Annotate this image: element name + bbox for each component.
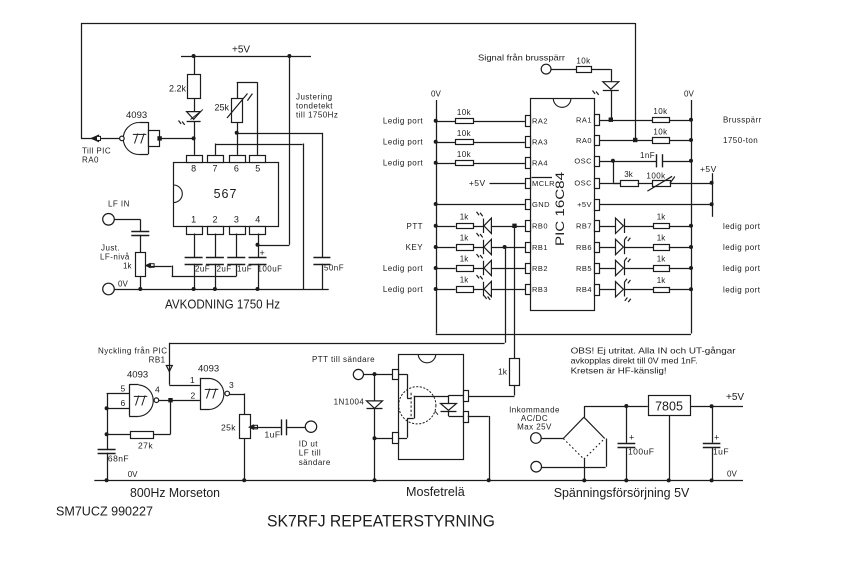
svg-text:10k: 10k xyxy=(457,150,472,159)
svg-text:Justering: Justering xyxy=(296,93,333,102)
svg-text:RA4: RA4 xyxy=(532,159,548,168)
svg-text:5: 5 xyxy=(121,384,126,394)
svg-text:ledig port: ledig port xyxy=(723,243,761,252)
svg-text:1uF: 1uF xyxy=(265,430,281,440)
svg-text:tondetekt: tondetekt xyxy=(296,102,333,111)
svg-text:50nF: 50nF xyxy=(324,264,344,273)
svg-text:OSC: OSC xyxy=(574,157,592,166)
svg-text:till 1750Hz: till 1750Hz xyxy=(296,111,338,120)
svg-text:1uF: 1uF xyxy=(713,447,729,457)
svg-text:2.2k: 2.2k xyxy=(169,84,187,94)
svg-text:+5V: +5V xyxy=(469,178,486,188)
svg-text:AVKODNING 1750 Hz: AVKODNING 1750 Hz xyxy=(165,297,280,312)
svg-text:RB1: RB1 xyxy=(532,243,548,252)
svg-text:Spänningsförsörjning 5V: Spänningsförsörjning 5V xyxy=(554,486,690,500)
svg-text:RB3: RB3 xyxy=(532,285,548,294)
svg-text:ledig port: ledig port xyxy=(723,222,761,231)
svg-text:2: 2 xyxy=(191,391,196,401)
svg-text:6: 6 xyxy=(121,398,126,408)
svg-text:25k: 25k xyxy=(214,103,229,113)
svg-text:100uF: 100uF xyxy=(258,265,283,274)
svg-text:10k: 10k xyxy=(457,129,472,138)
svg-text:1: 1 xyxy=(191,214,196,224)
svg-text:3k: 3k xyxy=(624,170,633,179)
svg-text:2uF: 2uF xyxy=(195,265,210,274)
svg-text:+5V: +5V xyxy=(577,200,592,209)
svg-text:Signal från brusspärr: Signal från brusspärr xyxy=(478,53,565,63)
svg-text:68nF: 68nF xyxy=(108,454,129,464)
svg-text:ledig port: ledig port xyxy=(723,285,761,294)
svg-text:GND: GND xyxy=(532,200,550,209)
svg-text:Just.: Just. xyxy=(101,244,120,253)
svg-text:RA1: RA1 xyxy=(576,116,592,125)
svg-text:1N1004: 1N1004 xyxy=(334,398,365,407)
svg-text:MCLR: MCLR xyxy=(532,179,555,188)
svg-text:Till PIC: Till PIC xyxy=(82,147,111,156)
svg-text:ID ut: ID ut xyxy=(299,440,318,449)
svg-text:KEY: KEY xyxy=(406,243,424,252)
svg-text:+5V: +5V xyxy=(232,45,250,56)
svg-text:+: + xyxy=(629,433,634,443)
svg-text:RB1: RB1 xyxy=(149,356,166,365)
svg-text:avkopplas direkt till 0V med 1: avkopplas direkt till 0V med 1nF. xyxy=(571,356,698,366)
svg-text:OSC: OSC xyxy=(574,179,592,188)
svg-text:10k: 10k xyxy=(653,128,668,137)
svg-text:1k: 1k xyxy=(657,234,666,243)
svg-text:3: 3 xyxy=(229,380,234,390)
svg-text:+5V: +5V xyxy=(700,164,717,174)
svg-text:+: + xyxy=(714,433,719,443)
svg-text:0V: 0V xyxy=(431,90,441,99)
svg-text:RB6: RB6 xyxy=(576,243,592,252)
svg-text:4: 4 xyxy=(155,385,160,395)
svg-text:8: 8 xyxy=(191,164,196,174)
svg-text:LF till: LF till xyxy=(299,449,321,458)
svg-text:5: 5 xyxy=(255,164,260,174)
svg-text:Nyckling från PIC: Nyckling från PIC xyxy=(98,347,167,356)
svg-text:RA0: RA0 xyxy=(576,136,592,145)
svg-text:25k: 25k xyxy=(221,423,236,433)
svg-text:+: + xyxy=(260,248,265,258)
svg-text:800Hz Morseton: 800Hz Morseton xyxy=(130,486,220,500)
svg-text:PIC 16C84: PIC 16C84 xyxy=(553,172,567,246)
svg-text:OBS! Ej utritat. Alla IN och U: OBS! Ej utritat. Alla IN och UT-gångar xyxy=(571,346,736,356)
svg-text:0V: 0V xyxy=(128,470,138,479)
svg-text:3: 3 xyxy=(234,214,239,224)
svg-text:2uF: 2uF xyxy=(217,265,232,274)
svg-text:567: 567 xyxy=(214,187,238,201)
svg-text:100k: 100k xyxy=(646,172,666,181)
svg-text:Kretsen är HF-känslig!: Kretsen är HF-känslig! xyxy=(571,366,667,376)
svg-text:1k: 1k xyxy=(460,234,469,243)
svg-text:6: 6 xyxy=(234,164,239,174)
svg-text:+5V: +5V xyxy=(726,392,744,403)
svg-text:RA0: RA0 xyxy=(82,156,99,165)
svg-text:1k: 1k xyxy=(460,255,469,264)
svg-text:4093: 4093 xyxy=(198,364,219,375)
svg-text:RA2: RA2 xyxy=(532,117,548,126)
svg-text:2: 2 xyxy=(212,214,217,224)
svg-text:sändare: sändare xyxy=(299,458,331,467)
svg-text:1uF: 1uF xyxy=(237,265,252,274)
svg-text:RB2: RB2 xyxy=(532,264,548,273)
svg-text:1k: 1k xyxy=(657,212,666,221)
svg-text:ledig port: ledig port xyxy=(723,264,761,273)
svg-text:0V: 0V xyxy=(727,470,737,479)
svg-text:1k: 1k xyxy=(460,276,469,285)
svg-text:0V: 0V xyxy=(118,280,128,289)
svg-text:LF IN: LF IN xyxy=(108,200,130,209)
svg-text:4: 4 xyxy=(255,214,260,224)
svg-text:1k: 1k xyxy=(657,276,666,285)
svg-text:SK7RFJ REPEATERSTYRNING: SK7RFJ REPEATERSTYRNING xyxy=(267,513,495,531)
svg-text:4093: 4093 xyxy=(127,370,148,381)
svg-text:Brusspärr: Brusspärr xyxy=(723,116,762,125)
svg-text:Max 25V: Max 25V xyxy=(517,423,552,432)
svg-text:Ledig port: Ledig port xyxy=(383,117,423,126)
svg-text:4093: 4093 xyxy=(126,110,147,121)
svg-text:PTT till sändare: PTT till sändare xyxy=(312,355,375,364)
svg-text:Ledig port: Ledig port xyxy=(383,264,423,273)
svg-text:1k: 1k xyxy=(460,212,469,221)
svg-text:10k: 10k xyxy=(653,107,668,116)
svg-text:27k: 27k xyxy=(138,441,153,451)
svg-text:RB7: RB7 xyxy=(576,222,592,231)
svg-text:Ledig port: Ledig port xyxy=(383,138,423,147)
svg-text:Ledig port: Ledig port xyxy=(383,159,423,168)
svg-text:1k: 1k xyxy=(123,262,132,271)
svg-text:RB0: RB0 xyxy=(532,222,548,231)
svg-text:RB4: RB4 xyxy=(576,285,592,294)
svg-text:1: 1 xyxy=(190,375,195,385)
svg-text:7: 7 xyxy=(212,164,217,174)
svg-text:1k: 1k xyxy=(498,367,508,377)
svg-text:Ledig port: Ledig port xyxy=(383,285,423,294)
svg-text:RA3: RA3 xyxy=(532,138,548,147)
svg-text:10k: 10k xyxy=(457,108,472,117)
svg-text:7805: 7805 xyxy=(655,400,683,414)
svg-text:0V: 0V xyxy=(684,90,694,99)
svg-text:SM7UCZ 990227: SM7UCZ 990227 xyxy=(56,504,153,519)
svg-text:Mosfetrelä: Mosfetrelä xyxy=(406,485,465,499)
svg-text:RB5: RB5 xyxy=(576,264,592,273)
svg-text:1nF: 1nF xyxy=(640,151,655,160)
svg-text:100uF: 100uF xyxy=(628,447,654,457)
svg-text:10k: 10k xyxy=(576,57,591,66)
svg-text:1k: 1k xyxy=(657,255,666,264)
svg-text:LF-nivå: LF-nivå xyxy=(100,253,130,262)
svg-text:1750-ton: 1750-ton xyxy=(723,136,758,145)
svg-text:PTT: PTT xyxy=(407,222,423,231)
